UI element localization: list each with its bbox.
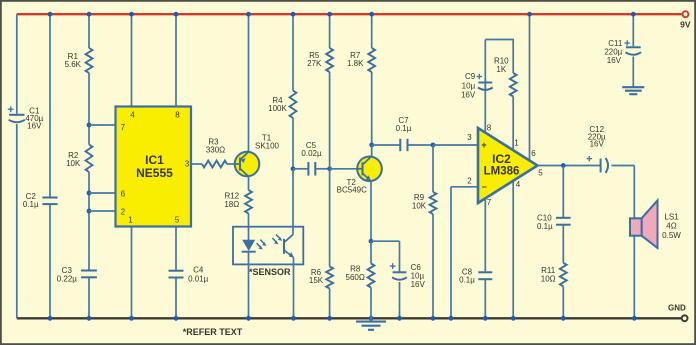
resistor R7 [368, 48, 375, 72]
label C3 value [57, 274, 78, 283]
node pin7 tap [87, 123, 92, 128]
wire C5-R5node [315, 168, 329, 170]
node C6 tap [369, 239, 374, 244]
wire rail-T1 [248, 14, 250, 152]
wire photo-gnd [293, 258, 295, 319]
node rail-pin4 [129, 12, 134, 17]
pin 5 IC2 [538, 169, 543, 178]
wire R5-node [329, 72, 331, 169]
node T2 collector [369, 143, 374, 148]
label C4 value [188, 274, 209, 283]
wire C6 branch [371, 240, 400, 242]
node gnd-C2 [48, 316, 53, 321]
wire pin2 route [451, 186, 478, 188]
capacitor C7 [400, 139, 407, 151]
label R4 [268, 96, 287, 113]
svg-text:0.1µ: 0.1µ [23, 200, 39, 209]
svg-text:5: 5 [538, 169, 543, 178]
GND rail [17, 317, 681, 319]
op-amp IC2 LM386 [478, 128, 538, 203]
resistor R9 [430, 192, 437, 214]
svg-text:3: 3 [185, 160, 190, 169]
node rail-R1 [87, 12, 92, 17]
label R11 [541, 266, 556, 283]
wire R7-node [371, 72, 373, 145]
pin 4 IC1 [130, 111, 135, 120]
wire rail-pin6 [529, 14, 531, 162]
wire pin5 out [538, 165, 601, 167]
label R7 [347, 51, 364, 68]
wire rail-C11 [632, 14, 634, 46]
svg-text:16V: 16V [461, 91, 476, 100]
plus C12 [587, 156, 592, 161]
wire C10 top [562, 166, 564, 218]
label C7 [398, 116, 409, 125]
svg-text:15K: 15K [309, 276, 324, 285]
label NE555 [136, 166, 173, 180]
node gnd-led [246, 316, 251, 321]
wire led top [248, 227, 250, 241]
label C12 [589, 125, 604, 134]
label C10 value [537, 222, 553, 231]
svg-text:18Ω: 18Ω [224, 200, 239, 209]
svg-text:C9: C9 [465, 72, 476, 81]
capacitor C3 [81, 271, 97, 278]
node gnd-speaker [632, 316, 637, 321]
label C10 [537, 214, 552, 223]
pin 8 IC2 [487, 124, 492, 133]
svg-text:16V: 16V [411, 280, 426, 289]
phototransistor light arrows [272, 235, 282, 245]
pin 2 IC2 [467, 177, 472, 186]
wire node-C7 [372, 144, 401, 146]
svg-text:LM386: LM386 [484, 166, 520, 178]
transistor T1 SK100 [235, 152, 260, 177]
svg-text:0.02µ: 0.02µ [301, 149, 322, 158]
label C8 [462, 268, 473, 277]
svg-text:−: − [482, 182, 487, 192]
node gnd-C4 [174, 316, 179, 321]
node gnd-C8 [483, 316, 488, 321]
wire R12-sensor [248, 214, 250, 227]
svg-text:6: 6 [531, 149, 536, 158]
wire rail-R4 [292, 14, 294, 90]
svg-text:0.1µ: 0.1µ [396, 124, 412, 133]
node R5 bottom [327, 166, 332, 171]
svg-text:8: 8 [487, 124, 492, 133]
svg-text:2: 2 [467, 177, 472, 186]
plus C9 [477, 74, 482, 79]
label R5 [307, 51, 322, 68]
svg-text:0.22µ: 0.22µ [57, 274, 78, 283]
resistor R1 [86, 48, 93, 73]
resistor R5 [326, 48, 333, 72]
wire R4-node [292, 118, 294, 169]
node gnd-R11 [561, 316, 566, 321]
node pin2 tap [87, 209, 92, 214]
label R3 [208, 138, 219, 147]
node rail-C11 [631, 12, 636, 17]
svg-text:0.1µ: 0.1µ [537, 222, 553, 231]
label C11 value [604, 47, 622, 56]
label R9 [412, 193, 427, 210]
label C9 [465, 72, 476, 81]
svg-text:+: + [481, 140, 486, 150]
wire pin1-gnd [131, 227, 133, 319]
transistor T2 BC549C [357, 157, 382, 182]
label R2 [66, 151, 81, 168]
svg-text:5.6K: 5.6K [65, 60, 82, 69]
pin 1 IC2 [514, 139, 519, 148]
sensor box [233, 227, 303, 265]
svg-text:16V: 16V [27, 121, 42, 130]
svg-text:4Ω: 4Ω [666, 222, 676, 231]
label C5 value [301, 149, 322, 158]
wire pin4-gnd [512, 181, 514, 319]
node pin6 tap [87, 191, 92, 196]
svg-text:IC2: IC2 [492, 152, 511, 166]
label C12 value [588, 132, 606, 141]
svg-text:10Ω: 10Ω [541, 274, 556, 283]
wire R6-gnd [329, 289, 331, 319]
phototransistor (sensor receiver) [284, 235, 294, 258]
label R10 [494, 57, 509, 74]
label LS1 imp [666, 222, 676, 231]
resistor R4 [290, 91, 297, 119]
label C7 value [396, 124, 412, 133]
svg-text:GND: GND [668, 304, 686, 313]
svg-text:0.1µ: 0.1µ [459, 276, 475, 285]
node gnd-R9 [431, 316, 436, 321]
wire rail-pin8 [175, 14, 177, 106]
wire R2-C3 [88, 172, 90, 270]
svg-text:7: 7 [121, 123, 126, 132]
label LS1 [664, 213, 679, 222]
label R1 [65, 52, 82, 69]
wire C8-gnd [484, 279, 486, 318]
node rail-pin8 [174, 12, 179, 17]
svg-text:27K: 27K [307, 59, 322, 68]
node C5 left [291, 166, 296, 171]
capacitor C6 [392, 272, 407, 279]
wire C2 bottom [49, 205, 51, 318]
svg-text:7: 7 [487, 198, 492, 207]
label T1 [262, 133, 272, 142]
label C9 value [462, 82, 476, 91]
capacitor C5 [308, 162, 315, 176]
wire pin7-C8 [484, 198, 486, 272]
label C11 [608, 39, 623, 48]
label T2 [347, 178, 357, 187]
node rail-R5 [327, 12, 332, 17]
svg-text:8: 8 [175, 111, 180, 120]
node gnd-C6 [397, 316, 402, 321]
label GND [668, 304, 686, 313]
label R6 [309, 268, 324, 285]
resistor R12 [245, 190, 252, 214]
wire corner-speaker [633, 166, 635, 219]
node gnd-R8 [369, 316, 374, 321]
wire rail-pin4 [131, 14, 133, 106]
pin 2 IC1 [121, 208, 126, 217]
wire R9-gnd [432, 214, 434, 318]
label LM386 [484, 166, 520, 178]
wire pin7 tap [89, 124, 116, 126]
pin 3 IC1 [185, 160, 190, 169]
wire C4-gnd [175, 278, 177, 319]
label LS1 power [662, 231, 681, 240]
label C9 voltage [461, 91, 476, 100]
wire R8-gnd [370, 288, 372, 319]
svg-text:10µ: 10µ [462, 82, 476, 91]
wire left edge bottom [16, 124, 18, 318]
9V terminal [683, 11, 689, 17]
svg-text:*SENSOR: *SENSOR [249, 267, 291, 277]
plus C11 [625, 40, 630, 45]
capacitor C10 [556, 218, 571, 225]
wire loop top [485, 40, 513, 74]
label R12 [224, 192, 239, 209]
svg-text:3: 3 [467, 133, 472, 142]
svg-text:1: 1 [128, 216, 133, 225]
label IC2 [492, 152, 511, 166]
svg-text:SK100: SK100 [255, 142, 280, 151]
wire T2-emitter [370, 181, 372, 241]
ground symbol C11 [622, 81, 644, 94]
node gnd-photo [291, 316, 296, 321]
minus IC2 [482, 182, 487, 192]
pin 5 IC1 [175, 216, 180, 225]
node gnd-R6 [327, 316, 332, 321]
wire speaker-gnd [633, 218, 635, 318]
LED (sensor emitter) [242, 240, 256, 252]
svg-text:1.8K: 1.8K [347, 59, 364, 68]
svg-text:100K: 100K [268, 104, 287, 113]
svg-text:10K: 10K [66, 159, 81, 168]
pin 1 IC1 [128, 216, 133, 225]
svg-text:LS1: LS1 [664, 213, 679, 222]
node gnd-pin2 [449, 316, 454, 321]
wire led-gnd [248, 252, 250, 319]
wire branch-C6 [399, 241, 401, 271]
svg-text:0.5W: 0.5W [662, 231, 681, 240]
wire C7-node [408, 144, 434, 146]
pin 3 IC2 [467, 133, 472, 142]
speaker LS1 [630, 200, 658, 248]
resistor R11 [560, 263, 567, 286]
wire C3-gnd [88, 277, 90, 318]
node gnd-pin1 [129, 316, 134, 321]
label C12 voltage [590, 139, 605, 148]
wire left edge top [16, 14, 18, 114]
node output [561, 163, 566, 168]
wire photo-node [292, 227, 294, 235]
svg-text:*REFER TEXT: *REFER TEXT [183, 327, 243, 337]
label R8 [346, 265, 365, 282]
wire pin5-C4 [175, 227, 177, 270]
GND terminal [682, 315, 688, 321]
wire pin3-R3 [191, 163, 202, 165]
svg-text:9V: 9V [680, 20, 691, 30]
svg-text:1K: 1K [496, 65, 506, 74]
wire node-C5 [293, 168, 308, 170]
wire C6-gnd [399, 282, 401, 318]
resistor R3 [202, 161, 227, 168]
IC IC1 NE555 [116, 107, 192, 227]
capacitor C1 [9, 115, 25, 122]
capacitor C2 [42, 198, 57, 205]
svg-text:330Ω: 330Ω [206, 146, 225, 155]
label IC1 [145, 153, 164, 167]
node rail-C2 [48, 12, 53, 17]
label C6 value [411, 272, 425, 281]
pin 4 IC2 [516, 180, 521, 189]
LED emission arrows [257, 240, 267, 250]
wire node-T2 [371, 145, 373, 157]
svg-text:16V: 16V [607, 56, 622, 65]
node rail-pin6 [527, 12, 532, 17]
wire pin2 tap [89, 210, 116, 212]
label T1 type [255, 142, 280, 151]
wire emitter-R8 [370, 241, 372, 263]
wire pin8 loop [484, 40, 486, 92]
label C2 [26, 192, 37, 201]
svg-text:1: 1 [514, 139, 519, 148]
node rail-R4 [291, 12, 296, 17]
capacitor C12 [601, 158, 608, 173]
label 9V [680, 20, 691, 30]
node rail-R7 [369, 12, 374, 17]
svg-text:NE555: NE555 [136, 166, 173, 180]
wire C11-earth [632, 57, 634, 82]
label REFER TEXT [183, 327, 243, 337]
wire node-R6 [329, 169, 331, 267]
node R9 top [431, 143, 436, 148]
label C1 [29, 106, 40, 115]
svg-text:BC549C: BC549C [337, 185, 367, 194]
node gnd-pin4 [511, 316, 516, 321]
label C6 [411, 263, 422, 272]
svg-text:16V: 16V [590, 139, 605, 148]
wire C2 top [49, 14, 51, 196]
wire pin2-gnd [450, 187, 452, 318]
svg-text:2: 2 [121, 208, 126, 217]
pin 7 IC2 [487, 198, 492, 207]
wire R1-R2 [88, 73, 90, 145]
wire pin6 tap [89, 192, 116, 194]
wire R11-gnd [562, 286, 564, 318]
plus IC2 [481, 140, 486, 150]
wire R9 top [432, 145, 434, 192]
wire R10-pin1 [512, 97, 514, 151]
label C4 [193, 266, 204, 275]
svg-text:4: 4 [516, 180, 521, 189]
label C1 voltage [27, 121, 42, 130]
capacitor C4 [169, 271, 184, 278]
wire rail-R5 [329, 14, 331, 48]
pin 6 IC1 [121, 190, 126, 199]
label R3 value [206, 146, 225, 155]
resistor R8 [368, 264, 375, 288]
label C8 value [459, 276, 475, 285]
pin 8 IC1 [175, 111, 180, 120]
pin 7 IC1 [121, 123, 126, 132]
svg-text:10K: 10K [412, 201, 427, 210]
wire pin8 up [484, 78, 486, 134]
label C3 [62, 266, 73, 275]
wire T1-R12 [248, 176, 250, 190]
wire C10-R11 [562, 225, 564, 263]
svg-text:6: 6 [121, 190, 126, 199]
capacitor C8 [478, 272, 492, 279]
svg-text:4: 4 [130, 111, 135, 120]
wire rail-R7 [371, 14, 373, 48]
resistor R6 [326, 267, 333, 289]
ground symbol main [356, 316, 386, 330]
wire node-T2base [330, 168, 357, 170]
label C6 voltage [411, 280, 426, 289]
resistor R10 [510, 73, 517, 97]
label C5 [306, 141, 317, 150]
wire node-pin3 [433, 144, 478, 146]
svg-text:560Ω: 560Ω [346, 273, 365, 282]
capacitor C9 [478, 83, 493, 90]
node rail-T1 [246, 12, 251, 17]
resistor R2 [86, 145, 93, 173]
pin 6 IC2 [531, 149, 536, 158]
node gnd-C3 [87, 316, 92, 321]
9V supply rail [17, 13, 682, 15]
svg-text:0.01µ: 0.01µ [188, 274, 209, 283]
plus C1 [8, 106, 14, 112]
svg-text:5: 5 [175, 216, 180, 225]
capacitor C11 [625, 47, 641, 54]
plus C6 [390, 263, 396, 269]
label C11 voltage [607, 56, 622, 65]
wire rail-R1 [88, 14, 90, 48]
wire C12-corner [612, 165, 635, 167]
label C1 value [25, 114, 43, 123]
label SENSOR [249, 267, 291, 277]
wire node-sensor [292, 169, 294, 227]
label T2 type [337, 185, 367, 194]
wire R3-T1 [227, 163, 236, 165]
label C2 value [23, 200, 39, 209]
